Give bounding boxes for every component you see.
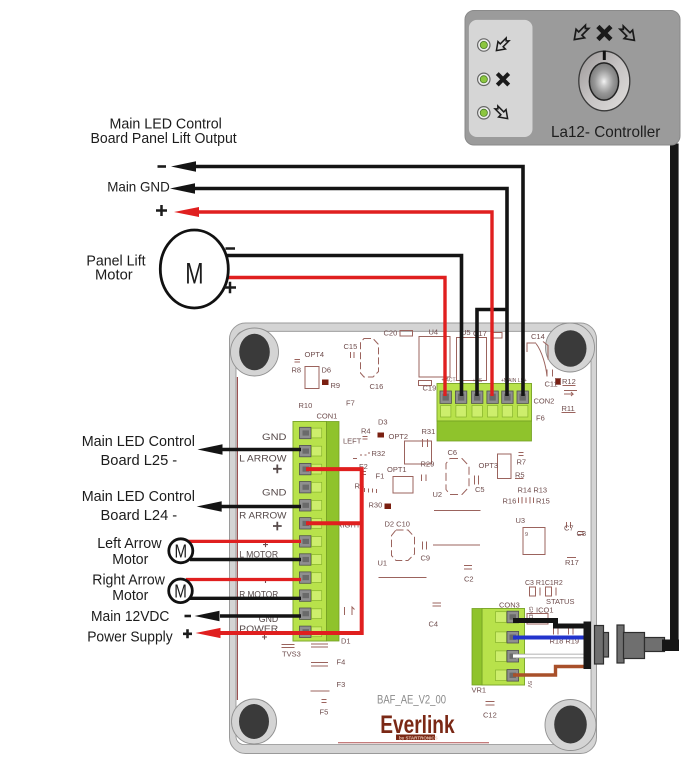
wire right arrow motor plus red <box>186 578 301 581</box>
motor M1 panel lift <box>160 230 228 308</box>
svg-text:U2: U2 <box>433 490 443 499</box>
svg-text:Main 12VDC: Main 12VDC <box>91 609 169 625</box>
knob ring <box>579 51 630 111</box>
svg-text:Board L24 -: Board L24 - <box>101 507 178 524</box>
svg-text:U4: U4 <box>429 328 439 337</box>
wire CON3 white to jack <box>513 654 584 659</box>
resistor R11 underline <box>562 412 576 414</box>
capacitor C2 pads <box>464 566 472 570</box>
svg-text:C19: C19 <box>423 384 437 393</box>
capacitor C6 can <box>446 459 469 495</box>
svg-text:F4: F4 <box>337 658 346 667</box>
connector CON3 pins <box>496 612 507 623</box>
motor M2 left arrow <box>169 539 193 563</box>
svg-text:9: 9 <box>525 532 528 538</box>
plus sign panel motor <box>225 282 237 294</box>
capacitor C14 brackets <box>527 342 548 377</box>
mounting pad bottom-right <box>545 700 596 751</box>
svg-text:U1: U1 <box>378 559 388 568</box>
svg-text:TVS3: TVS3 <box>282 650 301 659</box>
DC plug collar2 <box>604 633 609 658</box>
opto OPT1 box <box>393 477 413 494</box>
connector CON1 body <box>293 422 339 642</box>
opto OPT3 box <box>498 454 512 479</box>
svg-text:C4: C4 <box>429 620 439 629</box>
svg-text:VR1: VR1 <box>472 686 487 695</box>
opto OPT4 U-box <box>305 367 319 389</box>
svg-text:OPT3: OPT3 <box>479 461 499 470</box>
capacitor C17 pad <box>492 333 503 339</box>
diode D1 marks <box>311 644 328 647</box>
resistor R4 pads <box>363 437 368 440</box>
svg-text:C12: C12 <box>483 711 497 720</box>
La12 controller body <box>465 11 680 146</box>
La12 controller LED panel <box>469 20 533 137</box>
capacitor C4 pads <box>433 603 442 606</box>
svg-text:C5: C5 <box>475 485 485 494</box>
svg-text:R9: R9 <box>331 381 341 390</box>
svg-text:BAF_AE_V2_00: BAF_AE_V2_00 <box>377 695 446 707</box>
capacitor C11 pads <box>547 370 553 377</box>
svg-text:F7: F7 <box>346 399 355 408</box>
capacitor C7 C8 marks <box>567 522 585 535</box>
svg-text:M: M <box>175 542 188 562</box>
svg-text:ICO1: ICO1 <box>536 606 554 615</box>
wire L24 arrow <box>221 505 301 509</box>
svg-text:R14 R13: R14 R13 <box>518 486 548 495</box>
svg-text:Motor: Motor <box>95 267 133 283</box>
svg-text:OPT4: OPT4 <box>305 350 325 359</box>
svg-text:C11: C11 <box>545 380 558 389</box>
mounting pad bottom-left <box>232 699 277 744</box>
capacitors C3 R1 C1 R2 pads <box>530 587 557 596</box>
motor M3 right arrow <box>169 579 193 603</box>
DC jack on board <box>584 622 592 670</box>
capacitor C15 pads <box>351 352 355 358</box>
fuse F2 marks <box>353 459 366 475</box>
wire left arrow motor plus red <box>184 540 301 543</box>
controller cable corner <box>662 640 679 652</box>
mounting hole bottom-right <box>554 706 587 744</box>
diode D3 pad <box>378 433 385 438</box>
svg-text:CON1: CON1 <box>317 412 338 421</box>
connector CON2 body <box>437 384 532 442</box>
plus sign main 12V top <box>156 205 167 216</box>
icon arrow right above knob <box>617 23 638 44</box>
svg-text:U3: U3 <box>516 516 526 525</box>
pin plus 2 <box>273 522 282 531</box>
capacitor C9 pads <box>423 542 427 550</box>
svg-text:C20: C20 <box>384 329 398 338</box>
silkscreen red border line left <box>236 377 238 700</box>
PCB board inner area <box>236 331 591 744</box>
svg-text:D2 C10: D2 C10 <box>385 520 410 529</box>
capacitor C10 can <box>392 530 415 561</box>
wire panel lift output minus <box>194 167 523 397</box>
silkscreen red border line bottom <box>338 742 489 744</box>
trace line B <box>433 544 480 546</box>
svg-text:R5: R5 <box>515 471 525 480</box>
svg-text:F3: F3 <box>337 680 346 689</box>
svg-text:Main LED Control: Main LED Control <box>82 433 195 450</box>
svg-text:GND: GND <box>262 432 287 443</box>
svg-text:OPT2: OPT2 <box>389 432 409 441</box>
wire power supply red bus <box>219 469 362 633</box>
CON1 corner ticks <box>345 607 355 615</box>
knob ball <box>589 63 618 100</box>
svg-text:D6: D6 <box>322 366 332 375</box>
resistor R7 marks <box>519 453 524 456</box>
wire CON3 black to jack <box>513 621 584 627</box>
wire CON3 brown to jack <box>513 667 584 676</box>
svg-text:C16: C16 <box>370 382 384 391</box>
mounting hole top-left <box>239 334 270 371</box>
capacitor C12 pads <box>486 702 495 706</box>
connector CON3 body <box>472 609 525 686</box>
svg-text:R15: R15 <box>536 497 550 506</box>
mounting pad top-right <box>546 323 595 372</box>
svg-text:GND: GND <box>527 607 533 619</box>
svg-text:L ARROW: L ARROW <box>239 453 286 464</box>
svg-text:CON2: CON2 <box>534 397 555 406</box>
IC U5 outline <box>457 338 487 381</box>
svg-text:R11: R11 <box>562 404 575 413</box>
svg-text:C15: C15 <box>344 342 358 351</box>
resistor R32 dots <box>360 452 369 455</box>
Everlink sub text <box>396 735 435 741</box>
svg-text:C9: C9 <box>421 554 431 563</box>
svg-text:Left Arrow: Left Arrow <box>97 536 162 552</box>
svg-text:R ARROW: R ARROW <box>239 510 286 521</box>
icon X LED <box>497 74 508 85</box>
CON1 polarity marks <box>262 542 268 639</box>
fuse F4 pads <box>311 663 328 667</box>
resistor R12 pad <box>556 379 561 385</box>
minus sign main 12VDC <box>185 615 192 618</box>
DC plug flange <box>617 625 624 663</box>
svg-text:LEFT: LEFT <box>343 437 362 446</box>
svg-text:GND: GND <box>262 488 287 499</box>
resistor R31 pads <box>423 439 428 447</box>
IC U4 outline <box>419 337 450 378</box>
fuse F5 pads <box>322 700 327 703</box>
IC U3 outline <box>523 528 545 555</box>
icon arrow down-right LED <box>493 104 512 123</box>
LED down <box>478 107 490 119</box>
svg-text:C8: C8 <box>577 529 587 538</box>
wire main GND <box>194 189 507 397</box>
capacitor C5 pads <box>475 476 479 485</box>
minus sign panel motor <box>226 247 236 250</box>
jumper F6 lines <box>564 391 577 397</box>
svg-text:Main LED Control: Main LED Control <box>82 488 195 505</box>
svg-text:Everlink: Everlink <box>380 710 455 738</box>
wire panel motor minus <box>222 256 462 397</box>
svg-text:by STARTRONICS: by STARTRONICS <box>399 735 438 740</box>
svg-text:C14: C14 <box>531 332 545 341</box>
svg-text:R32: R32 <box>372 449 386 458</box>
svg-text:R30: R30 <box>369 501 383 510</box>
svg-text:Board L25 -: Board L25 - <box>101 452 178 469</box>
connector CON2 pins <box>440 391 451 403</box>
icon arrow up-left LED <box>493 36 512 55</box>
mounting pad top-left <box>231 328 279 376</box>
TVS3 pads <box>282 645 295 648</box>
connector CON1 pins <box>300 427 322 637</box>
capacitor C16 can <box>361 339 379 378</box>
svg-text:M: M <box>174 581 187 601</box>
svg-text:F5: F5 <box>320 708 329 717</box>
svg-text:C7: C7 <box>564 524 574 533</box>
knob indicator mark <box>603 51 606 61</box>
svg-text:R16: R16 <box>503 497 517 506</box>
svg-text:R12: R12 <box>562 377 576 386</box>
svg-text:Right Arrow: Right Arrow <box>92 573 165 589</box>
svg-text:M: M <box>185 258 203 291</box>
DC plug tip <box>645 638 665 652</box>
resistors R16 R15 bars <box>519 497 534 504</box>
mounting hole top-right <box>555 330 587 366</box>
svg-text:C17: C17 <box>473 329 487 338</box>
capacitor C19 pad <box>419 381 432 386</box>
icon X above knob <box>598 27 611 40</box>
icon arrow left above knob <box>570 23 591 44</box>
svg-text:D3: D3 <box>378 418 388 427</box>
svg-text:R31: R31 <box>422 427 436 436</box>
svg-text:R4: R4 <box>361 427 371 436</box>
svg-text:OPT1: OPT1 <box>387 465 407 474</box>
resistor R5 underline <box>515 478 524 480</box>
svg-text:R17: R17 <box>565 558 579 567</box>
trace line A <box>434 510 481 512</box>
svg-text:D1: D1 <box>341 637 351 646</box>
svg-text:R10: R10 <box>299 401 313 410</box>
plus sign power supply <box>183 629 192 638</box>
opto OPT2 box <box>405 441 432 464</box>
svg-text:Board Panel Lift Output: Board Panel Lift Output <box>91 130 238 147</box>
trace line C <box>379 577 427 579</box>
controller cable vertical <box>670 144 679 647</box>
resistor R12 underline <box>563 385 576 387</box>
svg-text:C2: C2 <box>464 575 474 584</box>
resistor R8 footprint <box>295 360 301 363</box>
wire right arrow motor minus <box>190 597 301 600</box>
capacitor C20 pad <box>400 331 413 337</box>
svg-text:R29: R29 <box>421 460 435 469</box>
DC plug collar1 <box>595 626 604 665</box>
svg-text:Motor: Motor <box>112 588 148 604</box>
wire CON3 blue to jack <box>513 636 584 640</box>
resistor R29 pads <box>422 475 427 482</box>
LED ICO1 box <box>527 614 548 625</box>
pin plus 1 <box>273 465 282 474</box>
DC plug body <box>624 633 645 659</box>
svg-text:F6: F6 <box>536 414 545 423</box>
svg-text:Motor: Motor <box>112 552 148 568</box>
svg-text:Power Supply: Power Supply <box>87 630 173 646</box>
component R9 pad <box>322 380 329 386</box>
wire left arrow motor minus <box>190 558 301 561</box>
wire panel motor plus red <box>223 278 445 397</box>
minus sign panel lift output <box>158 165 167 168</box>
fuse F3 pad <box>311 690 330 692</box>
resistor R17 marks <box>567 557 576 559</box>
svg-text:5V: 5V <box>526 681 532 688</box>
resistors R18 R19 pads <box>554 628 574 635</box>
wire main plus red <box>197 212 492 396</box>
svg-text:R7: R7 <box>517 458 527 467</box>
svg-text:C6: C6 <box>448 448 458 457</box>
resistor R30 pad <box>385 504 392 510</box>
mounting hole bottom-left <box>239 704 269 739</box>
svg-text:F1: F1 <box>376 472 385 481</box>
svg-text:La12- Controller: La12- Controller <box>551 124 661 141</box>
PCB board outer edge <box>230 323 597 754</box>
svg-text:C3 R1C1R2: C3 R1C1R2 <box>525 580 563 587</box>
svg-text:Main GND: Main GND <box>107 178 170 194</box>
svg-text:R8: R8 <box>292 366 302 375</box>
LED stop <box>478 73 490 85</box>
resistor R3 bars <box>365 488 377 493</box>
wire L25 arrow <box>221 448 301 452</box>
LED up <box>478 39 490 51</box>
wire main 12VDC arrow <box>220 614 301 618</box>
